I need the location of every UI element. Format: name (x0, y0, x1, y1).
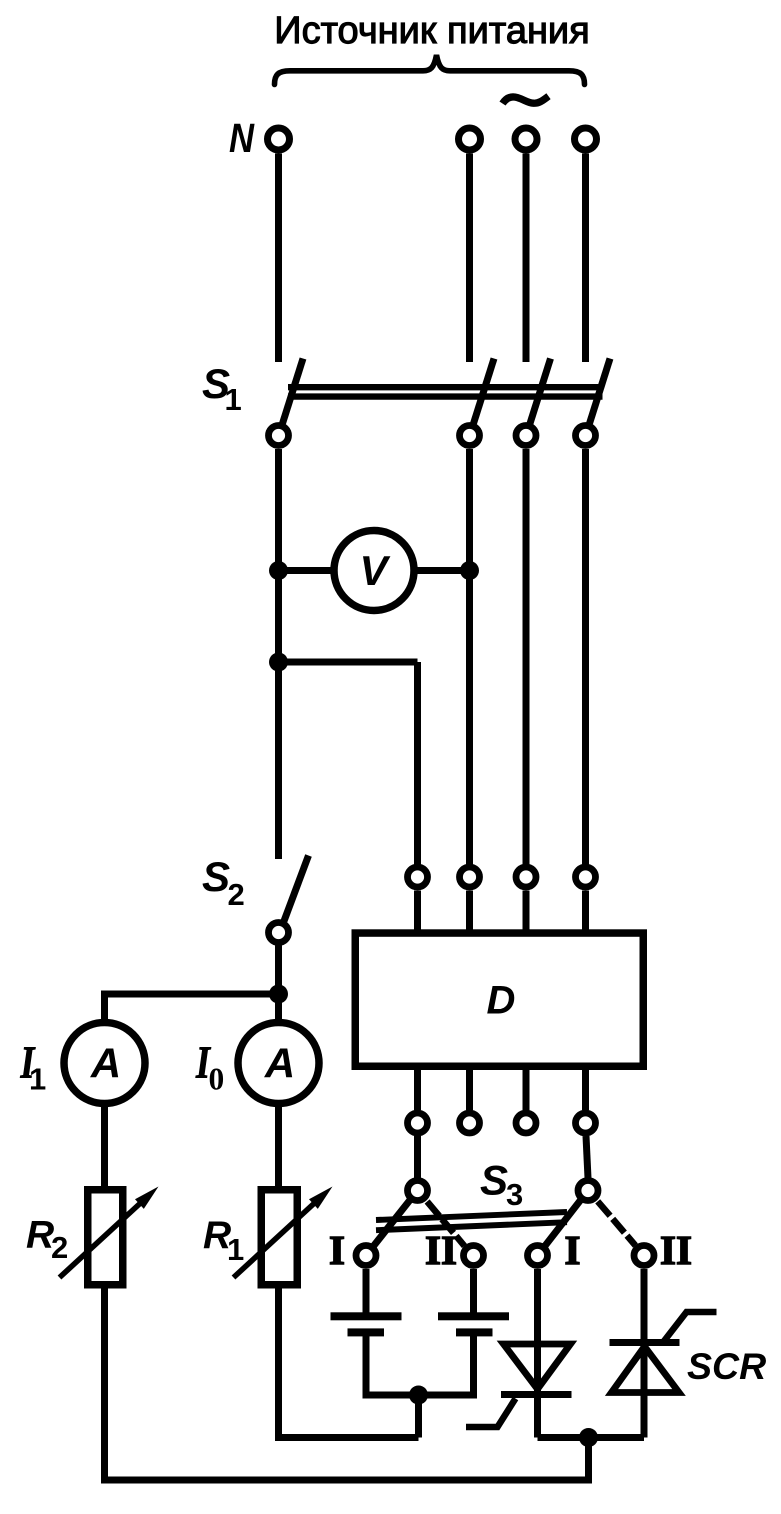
capacitor C1 (331, 1312, 402, 1336)
S1 contact circle pole 3 (516, 426, 536, 446)
switch S1 pole 4 blade (590, 359, 611, 424)
junction node I1 branch (269, 985, 288, 1004)
thyristor 1 triangle (504, 1344, 571, 1389)
svg-text:1: 1 (227, 1232, 244, 1267)
svg-text:N: N (229, 116, 255, 161)
label I1 (20, 1036, 47, 1096)
D output terminal 3 (516, 1113, 536, 1133)
D output terminal 2 (460, 1113, 480, 1133)
terminal L1 (459, 128, 481, 150)
junction node right of voltmeter (460, 561, 479, 580)
S3 mechanical link (double bar) (376, 1212, 567, 1220)
wire S1 pole3 down to D (523, 449, 530, 866)
wire capacitor junction down (415, 1395, 422, 1438)
wire D input 4 stub (582, 891, 589, 934)
label I0 (195, 1036, 224, 1096)
wire middle column down to D input 1 (414, 662, 421, 866)
svg-text:I: I (565, 1227, 581, 1273)
wire D output 4 to S3 pivot (586, 1136, 588, 1178)
D input terminal 1 (408, 867, 428, 887)
ammeter I1 (64, 1023, 145, 1104)
wire voltmeter right lead (412, 567, 470, 574)
thyristor 1 cathode bar (501, 1391, 572, 1398)
svg-text:S: S (480, 1157, 508, 1204)
wire R2 bottom to thyristor junction (105, 1284, 589, 1480)
svg-text:R: R (26, 1214, 54, 1257)
svg-text:A: A (90, 1040, 121, 1087)
S3 right arm (solid, position I) (538, 1191, 589, 1256)
wire D input 2 stub (466, 891, 473, 934)
voltmeter V (334, 531, 414, 611)
thyristor 1 gate (466, 1399, 516, 1428)
svg-text:1: 1 (29, 1062, 46, 1097)
D output terminal 1 (408, 1113, 428, 1133)
svg-text:2: 2 (51, 1230, 68, 1265)
label S1 (202, 360, 242, 417)
label S2 (202, 853, 245, 912)
wire D output 3 stub (523, 1066, 530, 1110)
terminal L2 (515, 128, 537, 150)
wire D input 3 stub (523, 891, 530, 934)
S3 contact II (left pole) (464, 1246, 484, 1266)
svg-text:2: 2 (228, 877, 245, 912)
wire R1 bottom to capacitor junction (279, 1284, 419, 1438)
terminal L3 (575, 128, 597, 150)
switch S1 pole 1 blade (283, 359, 304, 424)
wire capacitor bottoms joined (366, 1334, 474, 1395)
switch S2 blade (284, 856, 309, 922)
wire S1 pole4 down to D (582, 449, 589, 866)
wire N terminal to S1 (275, 154, 282, 363)
wire I1 to R2 (101, 1103, 108, 1190)
svg-text:A: A (264, 1040, 295, 1087)
S3 right arm dashes (position II) (598, 1201, 610, 1215)
svg-text:S: S (202, 853, 230, 900)
AC tilde symbol (503, 96, 549, 103)
S3 contact I (right pole) (528, 1246, 548, 1266)
svg-text:I: I (329, 1227, 345, 1273)
S3 pivot circle left (408, 1181, 428, 1201)
S3 left arm dashes (position II) (427, 1202, 439, 1217)
S1 mechanical link (double bar) (288, 384, 603, 390)
block D (rectifier) (355, 933, 643, 1066)
svg-text:II: II (660, 1227, 692, 1273)
resistor R2 arrow (60, 1198, 147, 1278)
wire ammeter I1 branch (105, 994, 279, 1023)
S3 left arm (solid, position I) (366, 1191, 418, 1256)
svg-text:3: 3 (506, 1177, 523, 1212)
wire D output 1 to S3 pivot (414, 1136, 421, 1178)
S3 pivot circle right (578, 1181, 598, 1201)
wire contact II to capacitor C2 (470, 1269, 477, 1313)
svg-text:V: V (359, 547, 390, 594)
S1 contact circle pole 1 (269, 426, 289, 446)
D input terminal 4 (576, 867, 596, 887)
label S3 (480, 1157, 523, 1213)
capacitor C2 (438, 1312, 509, 1336)
wire D output 1 stub (414, 1066, 421, 1110)
S1 contact circle pole 2 (460, 426, 480, 446)
resistor R1 arrow (234, 1198, 321, 1278)
wire S1 pole1 down to S2 (275, 449, 282, 859)
svg-text:II: II (425, 1227, 457, 1273)
svg-text:D: D (487, 979, 516, 1023)
svg-text:Источник питания: Источник питания (274, 10, 590, 52)
terminal N (268, 128, 290, 150)
switch S1 pole 3 blade (530, 359, 551, 424)
svg-text:SCR: SCR (687, 1345, 766, 1387)
SCR triangle (612, 1347, 680, 1393)
wire contact I to thyristor 1 (534, 1269, 541, 1438)
S3 contact II (right pole) (634, 1246, 654, 1266)
wire L1 terminal to S1 (466, 154, 473, 363)
wire D input 1 stub (414, 891, 421, 934)
wire D output 4 stub (582, 1066, 589, 1110)
D output terminal 4 (576, 1113, 596, 1133)
wire L2 terminal to S1 (523, 154, 530, 363)
resistor R1 body (261, 1190, 297, 1285)
wire junction to middle column (279, 659, 418, 666)
wire contact II to SCR (641, 1269, 648, 1438)
wire contact I to capacitor C1 (363, 1269, 370, 1313)
brace over supply terminals (275, 55, 585, 85)
wire D output 2 stub (466, 1066, 473, 1110)
resistor R2 body (88, 1190, 123, 1285)
switch S2 contact circle (269, 923, 289, 943)
S1 contact circle pole 4 (576, 426, 596, 446)
switch S1 pole 2 blade (474, 359, 495, 424)
thyristor bottom wire (538, 1434, 645, 1441)
wire S2 to junction (275, 946, 282, 1024)
S3 contact I (left pole) (356, 1246, 376, 1266)
SCR anode bar (610, 1339, 680, 1346)
svg-text:0: 0 (209, 1062, 225, 1097)
wire I0 to R1 (275, 1103, 282, 1190)
junction node thyristor bottoms (579, 1428, 598, 1447)
wire voltmeter left lead (279, 567, 337, 574)
junction node capacitors (409, 1386, 428, 1405)
wire L3 terminal to S1 (582, 154, 589, 363)
junction node left of voltmeter (269, 561, 288, 580)
SCR gate (663, 1312, 717, 1343)
svg-text:1: 1 (225, 382, 242, 417)
D input terminal 3 (516, 867, 536, 887)
ammeter I0 (238, 1023, 319, 1104)
wire S1 pole2 down to D (466, 449, 473, 866)
D input terminal 2 (460, 867, 480, 887)
label R2 (26, 1214, 68, 1266)
junction node on N wire (269, 653, 288, 672)
label R1 (203, 1214, 244, 1267)
